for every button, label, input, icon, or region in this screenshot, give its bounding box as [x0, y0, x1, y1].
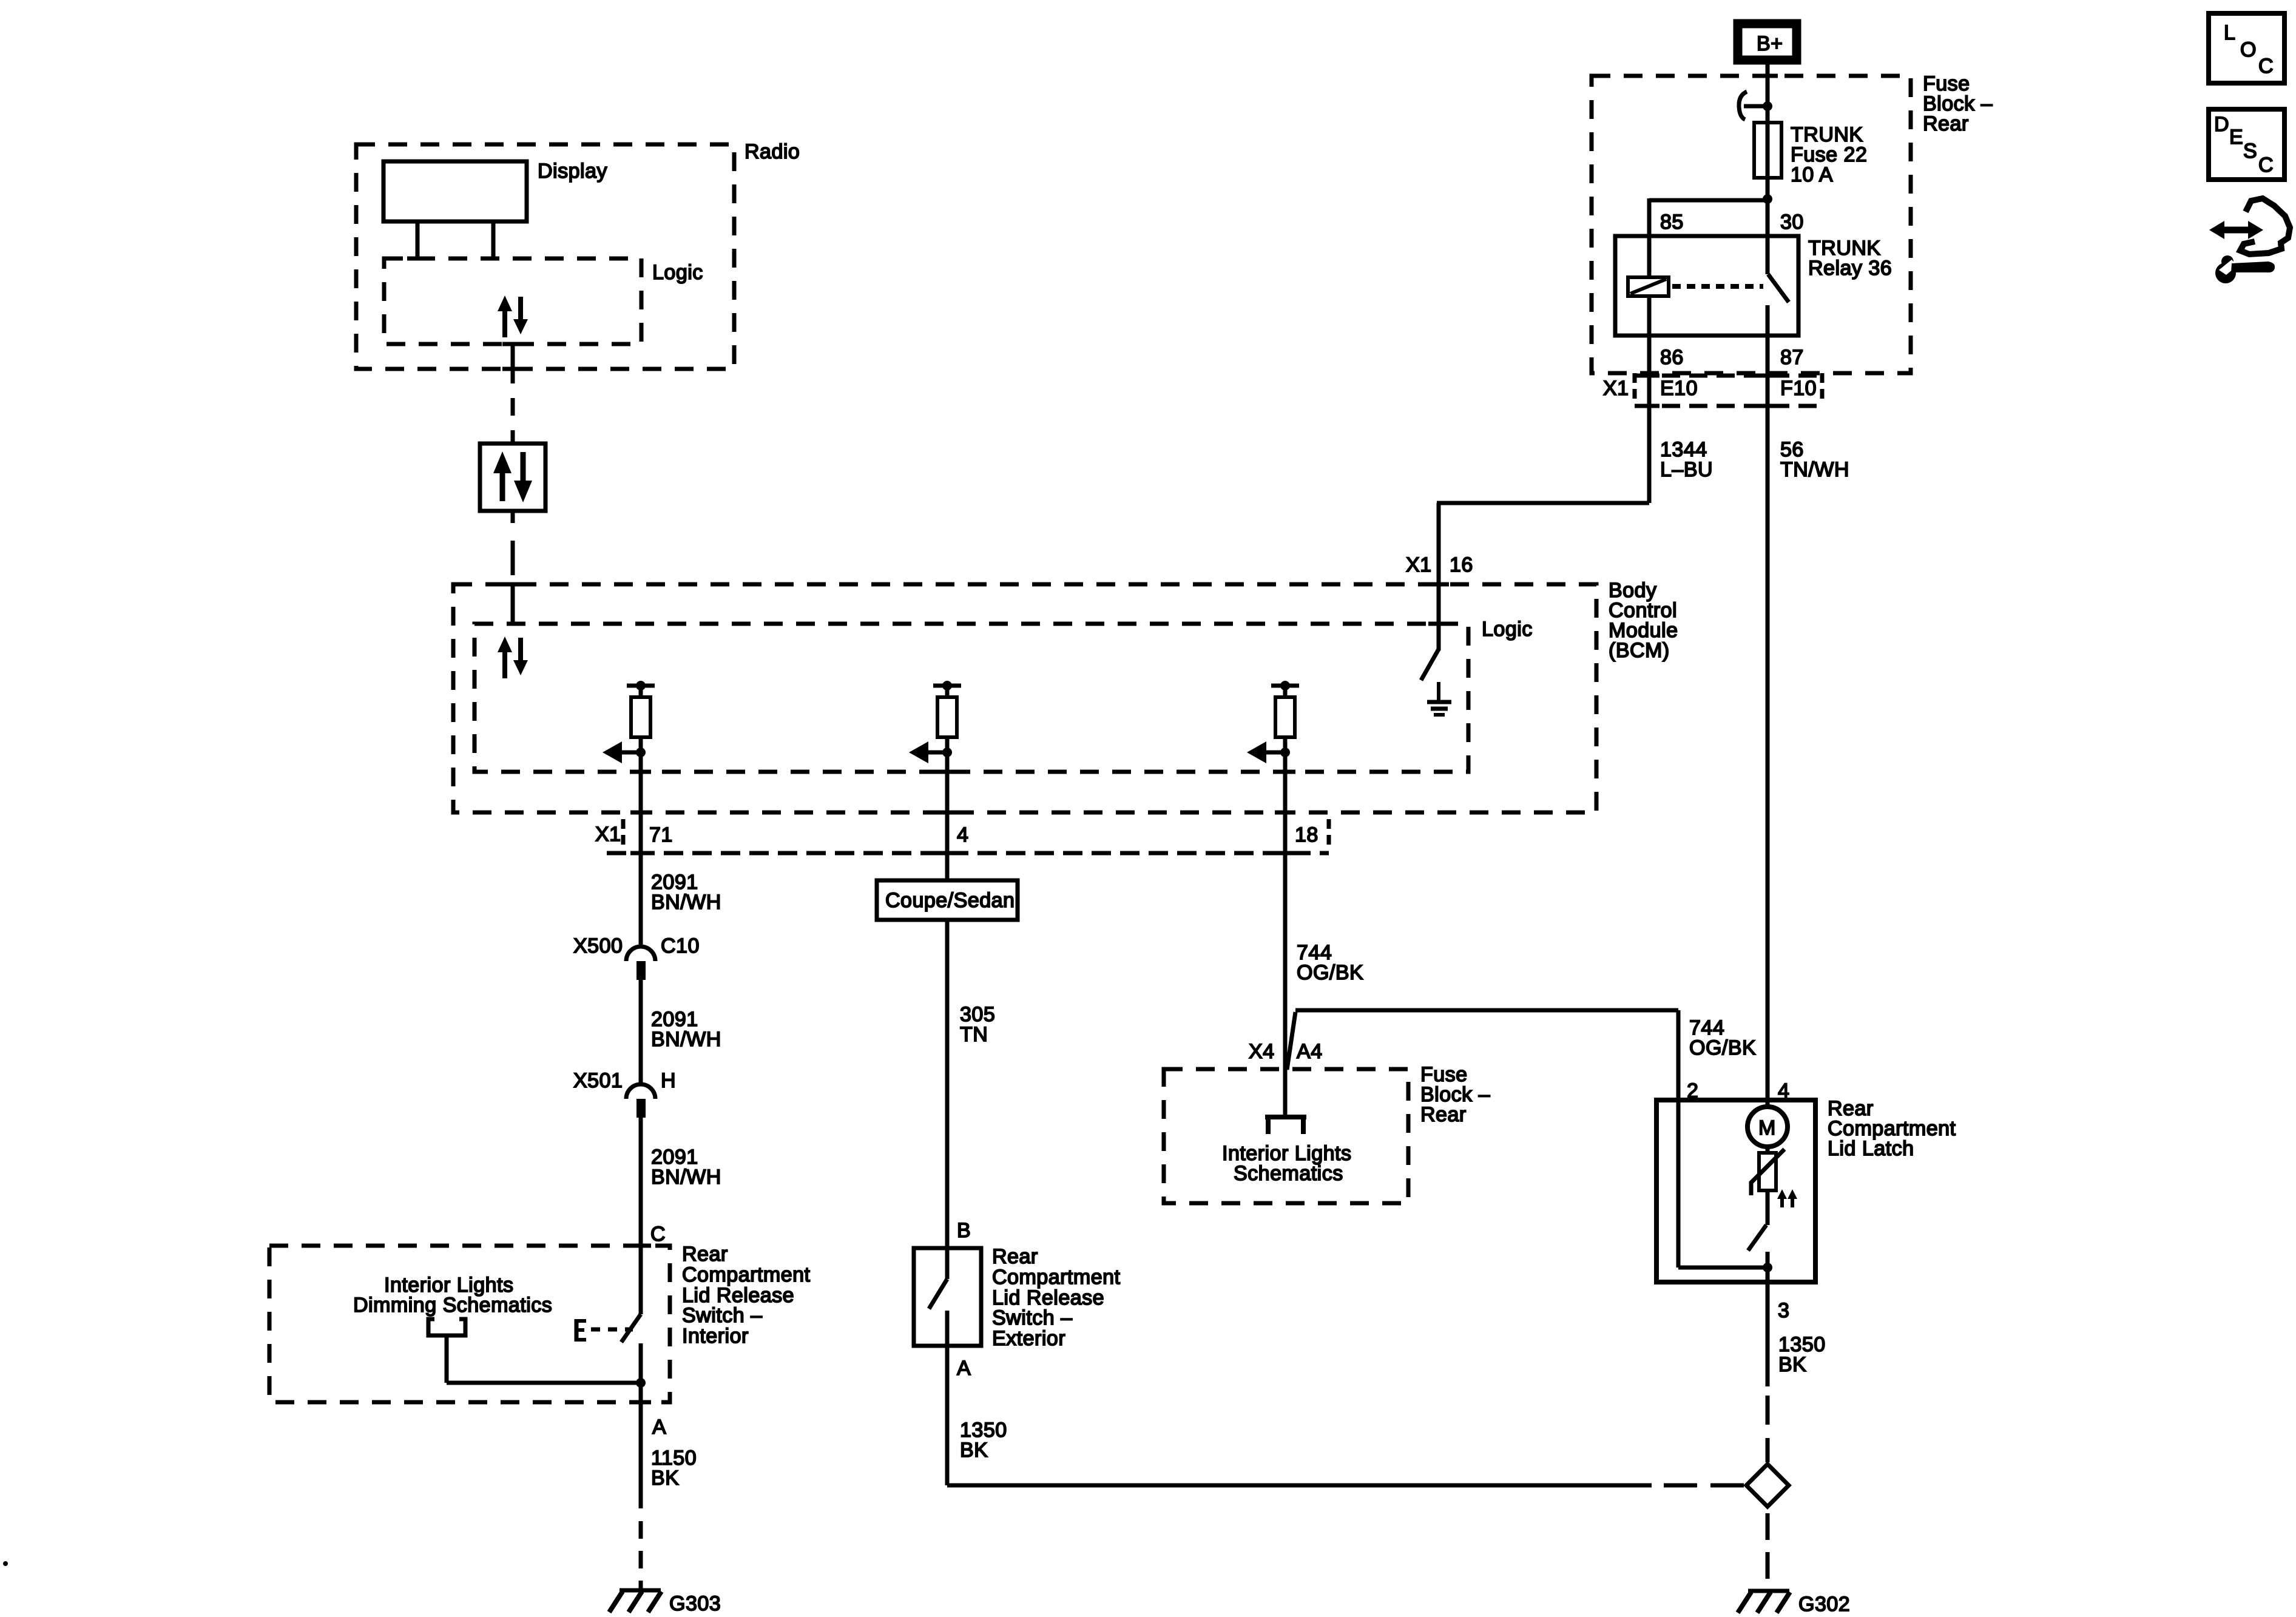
svg-text:Rear: Rear — [1923, 112, 1969, 135]
connector X1 strip right separator — [1327, 819, 1331, 848]
relay switch contact 87 — [1766, 305, 1770, 336]
svg-text:BN/WH: BN/WH — [651, 1166, 721, 1189]
label circuit 2091 BN/WH (lower) — [651, 1146, 721, 1189]
serial data gateway box — [480, 444, 545, 511]
ground G303 — [609, 1590, 661, 1612]
relay coil — [1628, 236, 1669, 336]
svg-text:G302: G302 — [1798, 1593, 1850, 1616]
tick wire crossing interior box bottom — [630, 1400, 651, 1405]
wire X501 to interior switch — [639, 1118, 643, 1314]
serial data down arrow (BCM logic) — [513, 638, 528, 675]
page dot — [3, 1561, 8, 1566]
inline connector X500 C10 — [626, 947, 655, 980]
svg-text:C: C — [2258, 55, 2274, 78]
svg-text:E10: E10 — [1660, 377, 1698, 400]
exterior switch blade — [929, 1279, 947, 1309]
svg-text:Switch –: Switch – — [682, 1304, 763, 1327]
relay box TRUNK Relay 36 — [1615, 236, 1798, 336]
label circuit 744 OG/BK (latch side) — [1689, 1016, 1756, 1059]
wire dimming branch to switch output — [447, 1381, 641, 1385]
wire exterior switch to splice (horizontal) — [947, 1484, 1652, 1488]
gateway down arrow — [514, 452, 532, 502]
svg-text:BK: BK — [651, 1467, 679, 1490]
fuse clip hook symbol — [1739, 92, 1772, 120]
wire branch to relay coil (85) — [1649, 198, 1768, 236]
wire exterior switch lower contact — [945, 1311, 950, 1485]
label Interior Lights Dimming Schematics — [353, 1274, 552, 1317]
fuse block rear dashed box (interior lights) — [1164, 1069, 1408, 1203]
svg-text:X500: X500 — [573, 934, 623, 957]
wire radio to gateway (dashed part) — [511, 398, 515, 444]
svg-text:(BCM): (BCM) — [1609, 639, 1670, 662]
svg-text:Switch –: Switch – — [992, 1306, 1073, 1329]
exterior switch box — [914, 1248, 981, 1346]
wire relay 86 to connector — [1647, 336, 1652, 406]
connector X1 E10/F10 strip bottom edge — [1635, 404, 1822, 408]
svg-text:BN/WH: BN/WH — [651, 1028, 721, 1051]
svg-text:A: A — [652, 1416, 666, 1439]
junction dot in latch — [1763, 1263, 1772, 1272]
svg-text:Compartment: Compartment — [682, 1263, 811, 1286]
wire dashed into splice — [1664, 1484, 1744, 1488]
tick wires crossing logic bottom edge — [630, 770, 1295, 774]
connector X1 strip left separator — [621, 819, 626, 848]
svg-text:B+: B+ — [1757, 32, 1783, 55]
latch motor M — [1747, 1107, 1788, 1147]
gateway up arrow — [493, 451, 512, 501]
svg-text:L–BU: L–BU — [1660, 458, 1713, 481]
svg-text:C: C — [650, 1223, 666, 1246]
svg-text:Radio: Radio — [745, 140, 800, 163]
svg-text:A4: A4 — [1297, 1040, 1323, 1063]
latch internal wire from pin 2 — [1678, 1100, 1768, 1268]
tick pin16 wire crossing logic top edge — [1428, 622, 1449, 626]
splice diamond — [1746, 1464, 1789, 1507]
svg-text:X501: X501 — [573, 1069, 623, 1092]
serial data up arrow (radio logic) — [498, 295, 512, 337]
svg-text:X4: X4 — [1249, 1040, 1275, 1063]
label circuit 1344 L-BU — [1660, 438, 1713, 481]
radio module dashed box — [356, 144, 734, 369]
latch switch blade — [1748, 1225, 1766, 1251]
wire relay 87 to connector — [1766, 336, 1770, 406]
svg-text:S: S — [2243, 140, 2257, 163]
relay actuator dashed link — [1672, 284, 1763, 289]
relay switch contact 30 — [1766, 236, 1770, 274]
fuse block rear dashed box (top) — [1592, 76, 1911, 373]
svg-text:Relay 36: Relay 36 — [1808, 257, 1892, 280]
svg-text:Schematics: Schematics — [1234, 1162, 1343, 1185]
svg-text:BK: BK — [960, 1439, 988, 1462]
inline connector X501 H — [626, 1084, 655, 1118]
tick wire crossing radio box bottom edge — [502, 367, 523, 371]
label circuit 305 TN — [960, 1003, 995, 1046]
tick wire crossing fuse block top edge — [1757, 74, 1778, 78]
BCM internal ground symbol — [1427, 682, 1451, 715]
svg-text:BK: BK — [1778, 1353, 1806, 1376]
svg-text:M: M — [1758, 1116, 1776, 1139]
wire driver3 down through connector — [1283, 752, 1288, 1115]
svg-text:87: 87 — [1780, 346, 1804, 369]
svg-text:C10: C10 — [661, 934, 700, 957]
junction dot at switch output — [636, 1378, 646, 1388]
latch limit arrows — [1777, 1189, 1797, 1207]
svg-text:Logic: Logic — [652, 261, 703, 284]
label Fuse Block - Rear (top) — [1923, 72, 1993, 135]
svg-text:O: O — [2240, 38, 2257, 61]
junction dot below fuse — [1763, 194, 1772, 204]
label Rear Compartment Lid Release Switch - Interior — [682, 1243, 811, 1348]
svg-text:OG/BK: OG/BK — [1689, 1036, 1756, 1059]
svg-text:Logic: Logic — [1482, 618, 1533, 641]
wire display right pin stub — [491, 221, 496, 258]
body control module dashed box — [453, 584, 1596, 812]
svg-text:30: 30 — [1780, 211, 1804, 234]
label circuit 1350 BK (latch) — [1778, 1333, 1826, 1376]
label Rear Compartment Lid Latch — [1828, 1097, 1956, 1160]
DESC icon box — [2209, 109, 2284, 180]
svg-text:10 A: 10 A — [1791, 163, 1833, 186]
tick pin16 wire crossing BCM top edge — [1428, 582, 1449, 587]
label TRUNK Fuse 22 10 A — [1791, 123, 1867, 186]
interior switch blade — [621, 1314, 641, 1342]
radio logic dashed box — [384, 258, 641, 344]
wire into BCM logic — [511, 584, 515, 624]
BCM internal switch blade to ground — [1421, 649, 1439, 680]
ground G302 — [1738, 1591, 1790, 1613]
wire exterior switch upper contact — [945, 1248, 950, 1279]
BCM output driver 1 (pin 71) — [603, 681, 655, 763]
BCM logic dashed box — [474, 624, 1468, 772]
wire dashed diamond to ground — [1766, 1513, 1770, 1590]
label Rear Compartment Lid Release Switch - Exterior — [992, 1245, 1121, 1350]
connector X1 strip bottom edge — [607, 851, 1329, 856]
svg-text:Compartment: Compartment — [992, 1266, 1121, 1289]
svg-text:Lid Latch: Lid Latch — [1828, 1137, 1914, 1160]
svg-text:85: 85 — [1660, 211, 1684, 234]
wire coupe box to exterior switch — [945, 920, 950, 1248]
svg-text:TN/WH: TN/WH — [1780, 458, 1849, 481]
serial data down arrow (radio logic) — [513, 297, 528, 334]
wire branch down to latch pin 2 — [1676, 1010, 1681, 1100]
wire E10 down and across to BCM pin 16 — [1437, 406, 1649, 503]
serial data up arrow (BCM logic) — [498, 636, 512, 678]
label Body Control Module (BCM) — [1609, 579, 1678, 662]
svg-text:Rear: Rear — [992, 1245, 1038, 1268]
svg-text:H: H — [661, 1069, 676, 1092]
svg-text:Rear: Rear — [1420, 1103, 1467, 1126]
connector strip left separator — [1633, 373, 1637, 402]
svg-text:Dimming Schematics: Dimming Schematics — [353, 1294, 552, 1317]
svg-text:OG/BK: OG/BK — [1297, 961, 1363, 984]
svg-text:16: 16 — [1450, 553, 1473, 576]
wire F10 down to latch motor — [1766, 406, 1770, 1108]
wrench icon — [2215, 255, 2275, 283]
svg-text:4: 4 — [957, 823, 968, 846]
wire to G303 (dashed) — [639, 1521, 643, 1590]
tick wires crossing X1 strip bottom — [630, 851, 1295, 856]
interior lights schematics reference bracket — [1265, 1117, 1306, 1134]
svg-text:X1: X1 — [1406, 553, 1432, 576]
label circuit 1150 BK — [651, 1447, 697, 1490]
tick wire crossing BCM top edge — [502, 582, 523, 587]
svg-text:X1: X1 — [595, 823, 621, 846]
label TRUNK Relay 36 — [1808, 237, 1892, 280]
BCM output driver 3 (pin 18) — [1247, 681, 1299, 763]
battery feed B+ box — [1738, 24, 1797, 60]
svg-text:X1: X1 — [1603, 377, 1629, 400]
wire pin16 into BCM — [1437, 503, 1441, 650]
svg-text:Rear: Rear — [682, 1243, 728, 1266]
svg-text:B: B — [957, 1219, 971, 1242]
tick wires crossing connector strip — [1639, 376, 1778, 406]
interior switch actuator E symbol — [575, 1319, 586, 1342]
svg-text:18: 18 — [1295, 823, 1319, 846]
svg-text:G303: G303 — [669, 1592, 721, 1615]
svg-text:BN/WH: BN/WH — [651, 891, 721, 914]
svg-text:3: 3 — [1778, 1299, 1789, 1322]
double arrow icon — [2209, 221, 2263, 239]
wire B+ to fuse — [1766, 64, 1770, 123]
fuse TRUNK Fuse 22 10A body — [1754, 123, 1781, 178]
wire display left pin stub — [416, 221, 420, 258]
svg-text:Coupe/Sedan: Coupe/Sedan — [885, 889, 1015, 912]
wire latch to ground (solid) — [1766, 1282, 1770, 1386]
svg-text:Display: Display — [538, 160, 607, 183]
svg-text:TN: TN — [960, 1023, 988, 1046]
LOC icon box — [2209, 13, 2284, 83]
wire radio logic to gateway (solid part) — [511, 344, 515, 383]
wire branch to latch (horizontal) — [1295, 1008, 1678, 1013]
svg-text:86: 86 — [1660, 346, 1684, 369]
connector X1 E10/F10 strip top edge — [1635, 374, 1822, 378]
wire fuse to junction — [1766, 178, 1770, 236]
BCM output driver 2 (pin 4) — [909, 681, 961, 763]
tick wire crossing radio logic bottom edge — [502, 342, 523, 346]
svg-text:L: L — [2224, 21, 2235, 44]
wire driver1 down through connector — [639, 752, 643, 946]
wire branch diagonal at X4 — [1287, 1012, 1295, 1070]
tick wires crossing BCM bottom edge — [630, 811, 1295, 815]
label Interior Lights Schematics — [1222, 1142, 1352, 1185]
coupe/sedan variant box — [877, 880, 1018, 920]
wire dashed to splice diamond — [1766, 1396, 1770, 1462]
svg-text:D: D — [2214, 113, 2229, 136]
wire gateway to BCM (dashed part) — [511, 541, 515, 575]
display component rectangle — [383, 161, 527, 221]
wire X500 to X501 — [639, 980, 643, 1084]
svg-text:71: 71 — [649, 823, 673, 846]
svg-text:A: A — [957, 1357, 971, 1380]
relay switch blade — [1768, 274, 1789, 302]
label circuit 1350 BK (exterior) — [960, 1419, 1007, 1462]
wire gateway to BCM (solid stub) — [511, 511, 515, 523]
wire interior switch lower contact — [639, 1343, 643, 1508]
rear compartment lid latch box — [1656, 1100, 1815, 1282]
svg-text:C: C — [2258, 154, 2274, 177]
svg-text:E: E — [2229, 126, 2243, 149]
label Fuse Block - Rear (lower) — [1420, 1063, 1490, 1126]
label circuit 56 TN/WH — [1780, 438, 1849, 481]
dimming schematics reference bracket — [428, 1319, 465, 1335]
interior switch dashed box — [269, 1246, 670, 1402]
latch switch lower contact — [1766, 1252, 1770, 1282]
wire bracket stem — [445, 1335, 449, 1383]
label circuit 2091 BN/WH (middle) — [651, 1008, 721, 1051]
svg-text:F10: F10 — [1780, 377, 1817, 400]
latch switch upper contact — [1766, 1190, 1770, 1225]
tick wire crossing interior box top — [630, 1244, 651, 1248]
connector strip right separator — [1820, 373, 1825, 402]
latch thermal protector — [1751, 1147, 1784, 1195]
label circuit 744 OG/BK (BCM side) — [1297, 941, 1363, 984]
dashed actuator link — [591, 1328, 633, 1332]
svg-text:Interior: Interior — [682, 1325, 749, 1348]
label circuit 2091 BN/WH (upper) — [651, 871, 721, 914]
tick display stub crossing logic box edge — [407, 257, 428, 261]
svg-text:Exterior: Exterior — [992, 1327, 1065, 1350]
wire driver2 down through connector — [945, 752, 950, 880]
panel outline icon — [2240, 198, 2290, 254]
